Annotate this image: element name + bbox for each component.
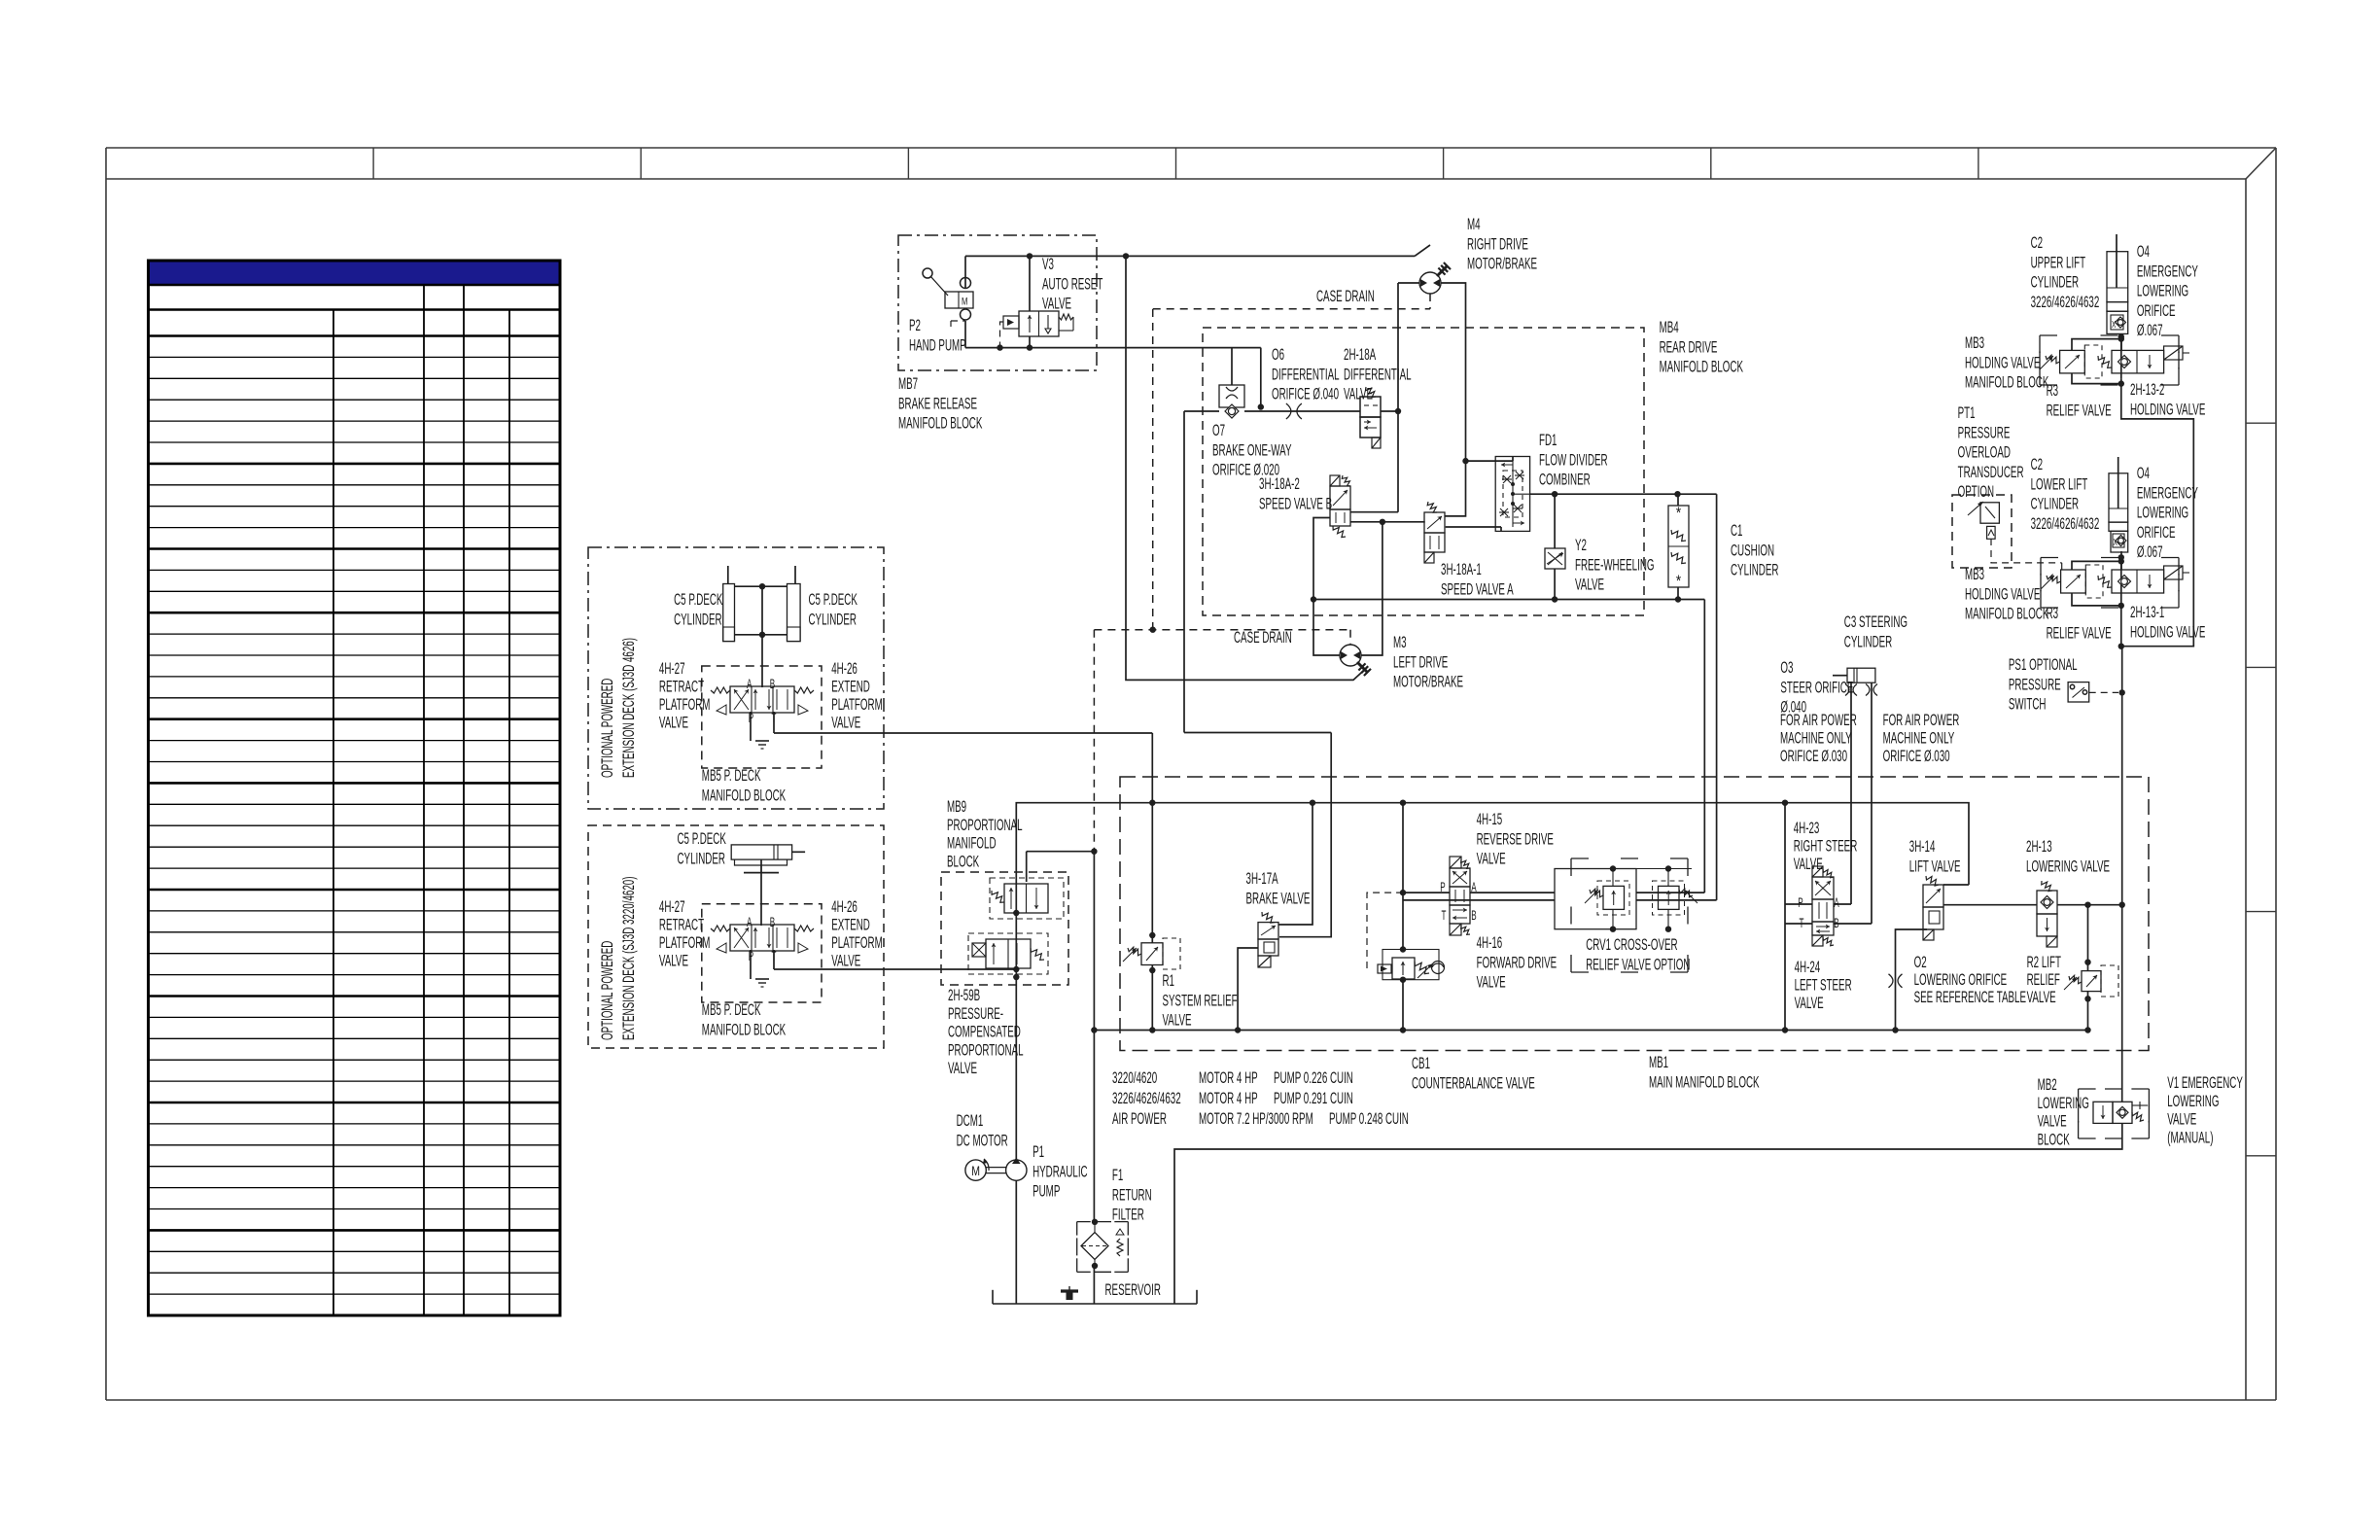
- svg-text:SYSTEM RELIEF: SYSTEM RELIEF: [1163, 992, 1238, 1009]
- svg-text:FD1: FD1: [1539, 431, 1557, 448]
- svg-text:4H-27: 4H-27: [659, 659, 685, 677]
- svg-text:CUSHION: CUSHION: [1731, 542, 1774, 559]
- svg-text:VALVE: VALVE: [1795, 994, 1824, 1011]
- svg-text:LIFT VALVE: LIFT VALVE: [1909, 857, 1961, 875]
- svg-text:PLATFORM: PLATFORM: [831, 933, 883, 951]
- svg-text:BRAKE VALVE: BRAKE VALVE: [1246, 890, 1311, 907]
- svg-text:CYLINDER: CYLINDER: [809, 611, 857, 628]
- svg-text:P1: P1: [1032, 1142, 1044, 1160]
- svg-text:VALVE: VALVE: [948, 1060, 977, 1077]
- svg-text:PUMP 0.291 CUIN: PUMP 0.291 CUIN: [1274, 1089, 1353, 1106]
- svg-text:C2: C2: [2031, 455, 2044, 472]
- svg-text:T: T: [1800, 917, 1804, 931]
- svg-text:EMERGENCY: EMERGENCY: [2137, 484, 2198, 502]
- svg-text:LOWERING: LOWERING: [2167, 1092, 2219, 1109]
- svg-text:TRANSDUCER: TRANSDUCER: [1958, 463, 2024, 480]
- svg-text:X: X: [2112, 319, 2117, 331]
- svg-text:REVERSE DRIVE: REVERSE DRIVE: [1477, 830, 1554, 848]
- svg-text:A: A: [1834, 896, 1839, 911]
- svg-text:MANIFOLD BLOCK: MANIFOLD BLOCK: [1965, 605, 2048, 622]
- svg-text:RELIEF VALVE OPTION: RELIEF VALVE OPTION: [1586, 956, 1690, 973]
- svg-text:AIR POWER: AIR POWER: [1112, 1109, 1167, 1127]
- svg-text:T: T: [772, 950, 777, 964]
- svg-text:RIGHT STEER: RIGHT STEER: [1794, 837, 1858, 855]
- svg-text:O7: O7: [1212, 421, 1225, 438]
- svg-text:VALVE: VALVE: [1477, 850, 1506, 867]
- svg-text:CRV1 CROSS-OVER: CRV1 CROSS-OVER: [1586, 935, 1678, 953]
- svg-text:LOWERING: LOWERING: [2137, 504, 2188, 521]
- svg-text:MB4: MB4: [1660, 318, 1679, 335]
- svg-text:SPEED VALVE B: SPEED VALVE B: [1259, 495, 1332, 512]
- svg-text:PRESSURE-: PRESSURE-: [948, 1004, 1003, 1022]
- svg-text:MB5 P. DECK: MB5 P. DECK: [702, 766, 761, 784]
- svg-text:MB7: MB7: [898, 374, 918, 392]
- svg-text:BRAKE RELEASE: BRAKE RELEASE: [898, 395, 977, 412]
- svg-text:4H-27: 4H-27: [659, 897, 685, 915]
- svg-text:M: M: [971, 1164, 980, 1179]
- svg-text:P: P: [1798, 896, 1802, 911]
- svg-text:CYLINDER: CYLINDER: [678, 850, 726, 867]
- svg-text:LOWERING: LOWERING: [2038, 1094, 2089, 1111]
- svg-text:HOLDING VALVE: HOLDING VALVE: [2130, 401, 2205, 418]
- svg-text:HOLDING VALVE: HOLDING VALVE: [1965, 585, 2040, 603]
- svg-text:CASE DRAIN: CASE DRAIN: [1316, 287, 1375, 304]
- svg-text:MOTOR 4 HP: MOTOR 4 HP: [1199, 1089, 1258, 1106]
- svg-text:FOR AIR POWER: FOR AIR POWER: [1780, 711, 1857, 728]
- svg-text:OPTION: OPTION: [1958, 483, 1994, 501]
- svg-text:LOWERING ORIFICE: LOWERING ORIFICE: [1914, 970, 2008, 988]
- svg-text:B: B: [1834, 917, 1838, 931]
- svg-text:C1: C1: [1731, 521, 1743, 539]
- svg-text:VALVE: VALVE: [1794, 855, 1823, 872]
- svg-text:3H-14: 3H-14: [1909, 837, 1936, 855]
- svg-text:MOTOR 7.2 HP/3000 RPM: MOTOR 7.2 HP/3000 RPM: [1199, 1109, 1313, 1127]
- svg-text:PRESSURE: PRESSURE: [1958, 424, 2011, 441]
- svg-text:VALVE: VALVE: [2167, 1110, 2196, 1128]
- svg-text:RETRACT: RETRACT: [659, 678, 704, 695]
- svg-text:DC MOTOR: DC MOTOR: [957, 1132, 1008, 1149]
- svg-text:4H-24: 4H-24: [1795, 958, 1821, 975]
- svg-text:DIFFERENTIAL: DIFFERENTIAL: [1344, 366, 1412, 383]
- svg-text:VALVE: VALVE: [1477, 973, 1506, 991]
- svg-text:RESERVOIR: RESERVOIR: [1105, 1280, 1162, 1298]
- svg-text:EXTENSION DECK (SJ3D 3220/4620: EXTENSION DECK (SJ3D 3220/4620): [619, 877, 637, 1040]
- svg-text:MAIN MANIFOLD BLOCK: MAIN MANIFOLD BLOCK: [1649, 1073, 1760, 1091]
- svg-text:O4: O4: [2137, 464, 2150, 481]
- svg-text:R3: R3: [2047, 381, 2059, 399]
- svg-text:*: *: [1676, 573, 1681, 591]
- svg-text:DIFFERENTIAL: DIFFERENTIAL: [1272, 366, 1340, 383]
- svg-text:MB5 P. DECK: MB5 P. DECK: [702, 1000, 761, 1018]
- svg-text:STEER ORIFICE: STEER ORIFICE: [1780, 679, 1853, 696]
- svg-text:MB9: MB9: [947, 797, 966, 815]
- svg-text:MACHINE ONLY: MACHINE ONLY: [1780, 729, 1852, 747]
- svg-text:C5 P.DECK: C5 P.DECK: [809, 590, 857, 608]
- svg-text:3226/4626/4632: 3226/4626/4632: [1112, 1089, 1181, 1106]
- svg-text:PROPORTIONAL: PROPORTIONAL: [947, 816, 1023, 833]
- svg-text:BLOCK: BLOCK: [947, 853, 979, 870]
- svg-text:3H-18A-2: 3H-18A-2: [1259, 474, 1300, 492]
- svg-text:R3: R3: [2047, 604, 2059, 621]
- svg-text:A: A: [747, 916, 752, 930]
- svg-text:COUNTERBALANCE VALVE: COUNTERBALANCE VALVE: [1412, 1074, 1535, 1092]
- svg-text:MANIFOLD BLOCK: MANIFOLD BLOCK: [898, 414, 982, 432]
- svg-text:P: P: [749, 712, 753, 726]
- svg-text:C2: C2: [2031, 233, 2044, 251]
- svg-text:VALVE: VALVE: [659, 952, 688, 969]
- svg-text:MB3: MB3: [1965, 333, 1984, 351]
- svg-text:P2: P2: [909, 316, 921, 333]
- svg-text:RELIEF VALVE: RELIEF VALVE: [2047, 624, 2112, 642]
- svg-text:V3: V3: [1042, 255, 1054, 272]
- svg-text:A: A: [747, 678, 752, 692]
- svg-text:REAR DRIVE: REAR DRIVE: [1660, 338, 1718, 356]
- svg-text:RELIEF VALVE: RELIEF VALVE: [2047, 402, 2112, 419]
- svg-text:AUTO RESET: AUTO RESET: [1042, 275, 1102, 293]
- svg-text:ORIFICE: ORIFICE: [2137, 523, 2176, 541]
- svg-text:FOR AIR POWER: FOR AIR POWER: [1883, 711, 1960, 728]
- svg-text:P: P: [1440, 881, 1445, 895]
- svg-text:MANIFOLD BLOCK: MANIFOLD BLOCK: [1965, 373, 2048, 391]
- svg-text:RETURN: RETURN: [1112, 1186, 1152, 1204]
- svg-text:BLOCK: BLOCK: [2038, 1131, 2070, 1148]
- svg-text:FREE-WHEELING: FREE-WHEELING: [1575, 556, 1654, 574]
- svg-text:MANIFOLD BLOCK: MANIFOLD BLOCK: [1660, 358, 1743, 375]
- svg-text:CYLINDER: CYLINDER: [1844, 633, 1893, 650]
- svg-text:C5 P.DECK: C5 P.DECK: [674, 590, 722, 608]
- svg-text:MB3: MB3: [1965, 565, 1984, 582]
- svg-text:3226/4626/4632: 3226/4626/4632: [2031, 293, 2100, 310]
- svg-text:Y2: Y2: [1575, 536, 1587, 553]
- svg-text:PLATFORM: PLATFORM: [659, 695, 711, 713]
- svg-text:HYDRAULIC: HYDRAULIC: [1032, 1163, 1088, 1180]
- svg-text:MB1: MB1: [1649, 1053, 1668, 1070]
- svg-text:PUMP: PUMP: [1032, 1182, 1060, 1200]
- svg-text:O3: O3: [1780, 658, 1793, 676]
- svg-text:C3 STEERING: C3 STEERING: [1844, 612, 1907, 630]
- svg-text:BRAKE ONE-WAY: BRAKE ONE-WAY: [1212, 441, 1292, 459]
- svg-text:4H-16: 4H-16: [1477, 933, 1503, 951]
- svg-text:OVERLOAD: OVERLOAD: [1958, 443, 2012, 461]
- svg-text:HOLDING VALVE: HOLDING VALVE: [1965, 354, 2040, 371]
- svg-text:LOWER LIFT: LOWER LIFT: [2031, 475, 2088, 493]
- svg-text:CB1: CB1: [1412, 1054, 1430, 1071]
- svg-text:O2: O2: [1914, 953, 1927, 970]
- svg-text:HAND PUMP: HAND PUMP: [909, 336, 966, 354]
- svg-text:3H-18A-1: 3H-18A-1: [1441, 560, 1482, 577]
- svg-text:SPEED VALVE A: SPEED VALVE A: [1441, 580, 1514, 598]
- svg-text:MOTOR/BRAKE: MOTOR/BRAKE: [1393, 673, 1463, 690]
- svg-text:PLATFORM: PLATFORM: [831, 695, 883, 713]
- svg-text:2H-18A: 2H-18A: [1344, 345, 1376, 363]
- svg-text:FORWARD DRIVE: FORWARD DRIVE: [1477, 954, 1557, 971]
- svg-text:4H-26: 4H-26: [831, 659, 857, 677]
- svg-text:V1 EMERGENCY: V1 EMERGENCY: [2167, 1073, 2243, 1091]
- svg-text:R2 LIFT: R2 LIFT: [2027, 953, 2061, 970]
- svg-text:LEFT DRIVE: LEFT DRIVE: [1393, 653, 1448, 671]
- svg-text:MANIFOLD: MANIFOLD: [947, 834, 997, 852]
- svg-text:4H-23: 4H-23: [1794, 819, 1820, 836]
- svg-text:2H-13-1: 2H-13-1: [2130, 603, 2164, 620]
- svg-text:2H-13: 2H-13: [2026, 837, 2052, 855]
- svg-text:HOLDING VALVE: HOLDING VALVE: [2130, 623, 2205, 641]
- svg-text:PT1: PT1: [1958, 403, 1976, 421]
- svg-text:CYLINDER: CYLINDER: [2031, 273, 2080, 291]
- svg-text:ORIFICE Ø.030: ORIFICE Ø.030: [1883, 747, 1950, 764]
- svg-text:M: M: [962, 296, 967, 308]
- svg-text:COMPENSATED: COMPENSATED: [948, 1023, 1021, 1040]
- svg-text:2H-59B: 2H-59B: [948, 986, 980, 1003]
- svg-text:VALVE: VALVE: [1344, 385, 1373, 402]
- svg-text:C5 P.DECK: C5 P.DECK: [678, 829, 726, 847]
- svg-text:EXTEND: EXTEND: [831, 678, 870, 695]
- svg-text:FLOW DIVIDER: FLOW DIVIDER: [1539, 451, 1608, 469]
- svg-text:MANIFOLD BLOCK: MANIFOLD BLOCK: [702, 1021, 786, 1038]
- svg-text:(MANUAL): (MANUAL): [2167, 1129, 2213, 1146]
- svg-text:*: *: [1676, 505, 1681, 523]
- svg-text:VALVE: VALVE: [831, 714, 860, 731]
- svg-text:ORIFICE: ORIFICE: [2137, 301, 2176, 319]
- svg-text:4H-26: 4H-26: [831, 897, 857, 915]
- svg-text:ORIFICE Ø.030: ORIFICE Ø.030: [1780, 747, 1847, 764]
- svg-text:PLATFORM: PLATFORM: [659, 933, 711, 951]
- svg-text:2H-13-2: 2H-13-2: [2130, 380, 2164, 398]
- svg-text:UPPER LIFT: UPPER LIFT: [2031, 254, 2086, 271]
- svg-text:PUMP 0.248 CUIN: PUMP 0.248 CUIN: [1329, 1109, 1409, 1127]
- svg-text:CYLINDER: CYLINDER: [1731, 561, 1779, 578]
- svg-text:B: B: [770, 678, 775, 692]
- svg-text:MOTOR/BRAKE: MOTOR/BRAKE: [1467, 255, 1537, 272]
- svg-text:MOTOR 4 HP: MOTOR 4 HP: [1199, 1068, 1258, 1086]
- svg-text:M4: M4: [1467, 215, 1481, 232]
- svg-text:RIGHT DRIVE: RIGHT DRIVE: [1467, 235, 1528, 253]
- svg-text:CASE DRAIN: CASE DRAIN: [1234, 628, 1292, 646]
- svg-text:T: T: [1442, 909, 1447, 924]
- svg-text:VALVE: VALVE: [659, 714, 688, 731]
- svg-text:VALVE: VALVE: [1575, 576, 1604, 593]
- svg-text:EXTEND: EXTEND: [831, 916, 870, 933]
- svg-text:VALVE: VALVE: [2038, 1112, 2067, 1130]
- svg-text:O4: O4: [2137, 242, 2150, 260]
- svg-text:PRESSURE: PRESSURE: [2009, 676, 2061, 693]
- svg-text:OPTIONAL POWERED: OPTIONAL POWERED: [598, 940, 615, 1040]
- svg-text:RETRACT: RETRACT: [659, 916, 704, 933]
- svg-text:T: T: [772, 712, 777, 726]
- svg-text:PUMP 0.226 CUIN: PUMP 0.226 CUIN: [1274, 1068, 1353, 1086]
- svg-text:Ø.067: Ø.067: [2137, 543, 2163, 561]
- svg-text:PS1 OPTIONAL: PS1 OPTIONAL: [2009, 655, 2078, 673]
- svg-text:SEE REFERENCE TABLE: SEE REFERENCE TABLE: [1914, 988, 2026, 1005]
- svg-text:4H-15: 4H-15: [1477, 810, 1503, 827]
- svg-text:PROPORTIONAL: PROPORTIONAL: [948, 1041, 1024, 1059]
- svg-text:DCM1: DCM1: [957, 1111, 984, 1129]
- svg-text:3220/4620: 3220/4620: [1112, 1068, 1157, 1086]
- svg-text:MACHINE ONLY: MACHINE ONLY: [1883, 729, 1955, 747]
- svg-text:LOWERING: LOWERING: [2137, 282, 2188, 299]
- svg-text:VALVE: VALVE: [831, 952, 860, 969]
- svg-text:SWITCH: SWITCH: [2009, 695, 2047, 713]
- svg-text:3H-17A: 3H-17A: [1246, 869, 1278, 887]
- svg-text:ORIFICE Ø.040: ORIFICE Ø.040: [1272, 385, 1339, 402]
- svg-text:EMERGENCY: EMERGENCY: [2137, 262, 2198, 280]
- svg-text:RELIEF: RELIEF: [2027, 970, 2060, 988]
- svg-text:MB2: MB2: [2038, 1075, 2057, 1093]
- svg-text:FILTER: FILTER: [1112, 1206, 1144, 1223]
- svg-text:A: A: [1471, 881, 1477, 895]
- svg-text:VALVE: VALVE: [2027, 988, 2056, 1005]
- svg-text:COMBINER: COMBINER: [1539, 471, 1591, 488]
- svg-text:LOWERING VALVE: LOWERING VALVE: [2026, 857, 2110, 875]
- svg-text:VALVE: VALVE: [1163, 1011, 1192, 1029]
- svg-text:LEFT STEER: LEFT STEER: [1795, 976, 1852, 994]
- svg-text:3226/4626/4632: 3226/4626/4632: [2031, 514, 2100, 532]
- svg-text:CYLINDER: CYLINDER: [2031, 495, 2080, 512]
- svg-text:VALVE: VALVE: [1042, 295, 1071, 312]
- svg-text:Ø.067: Ø.067: [2137, 322, 2163, 339]
- svg-text:P: P: [749, 950, 753, 964]
- svg-text:CYLINDER: CYLINDER: [674, 611, 722, 628]
- svg-text:MANIFOLD BLOCK: MANIFOLD BLOCK: [702, 787, 786, 804]
- svg-text:M3: M3: [1393, 633, 1407, 650]
- svg-text:R1: R1: [1163, 971, 1175, 989]
- svg-text:B: B: [1471, 909, 1476, 924]
- svg-text:O6: O6: [1272, 345, 1284, 363]
- svg-text:OPTIONAL POWERED: OPTIONAL POWERED: [598, 678, 615, 778]
- svg-text:B: B: [770, 916, 775, 930]
- svg-text:EXTENSION DECK (SJ3D 4626): EXTENSION DECK (SJ3D 4626): [619, 638, 637, 778]
- svg-text:F1: F1: [1112, 1166, 1123, 1183]
